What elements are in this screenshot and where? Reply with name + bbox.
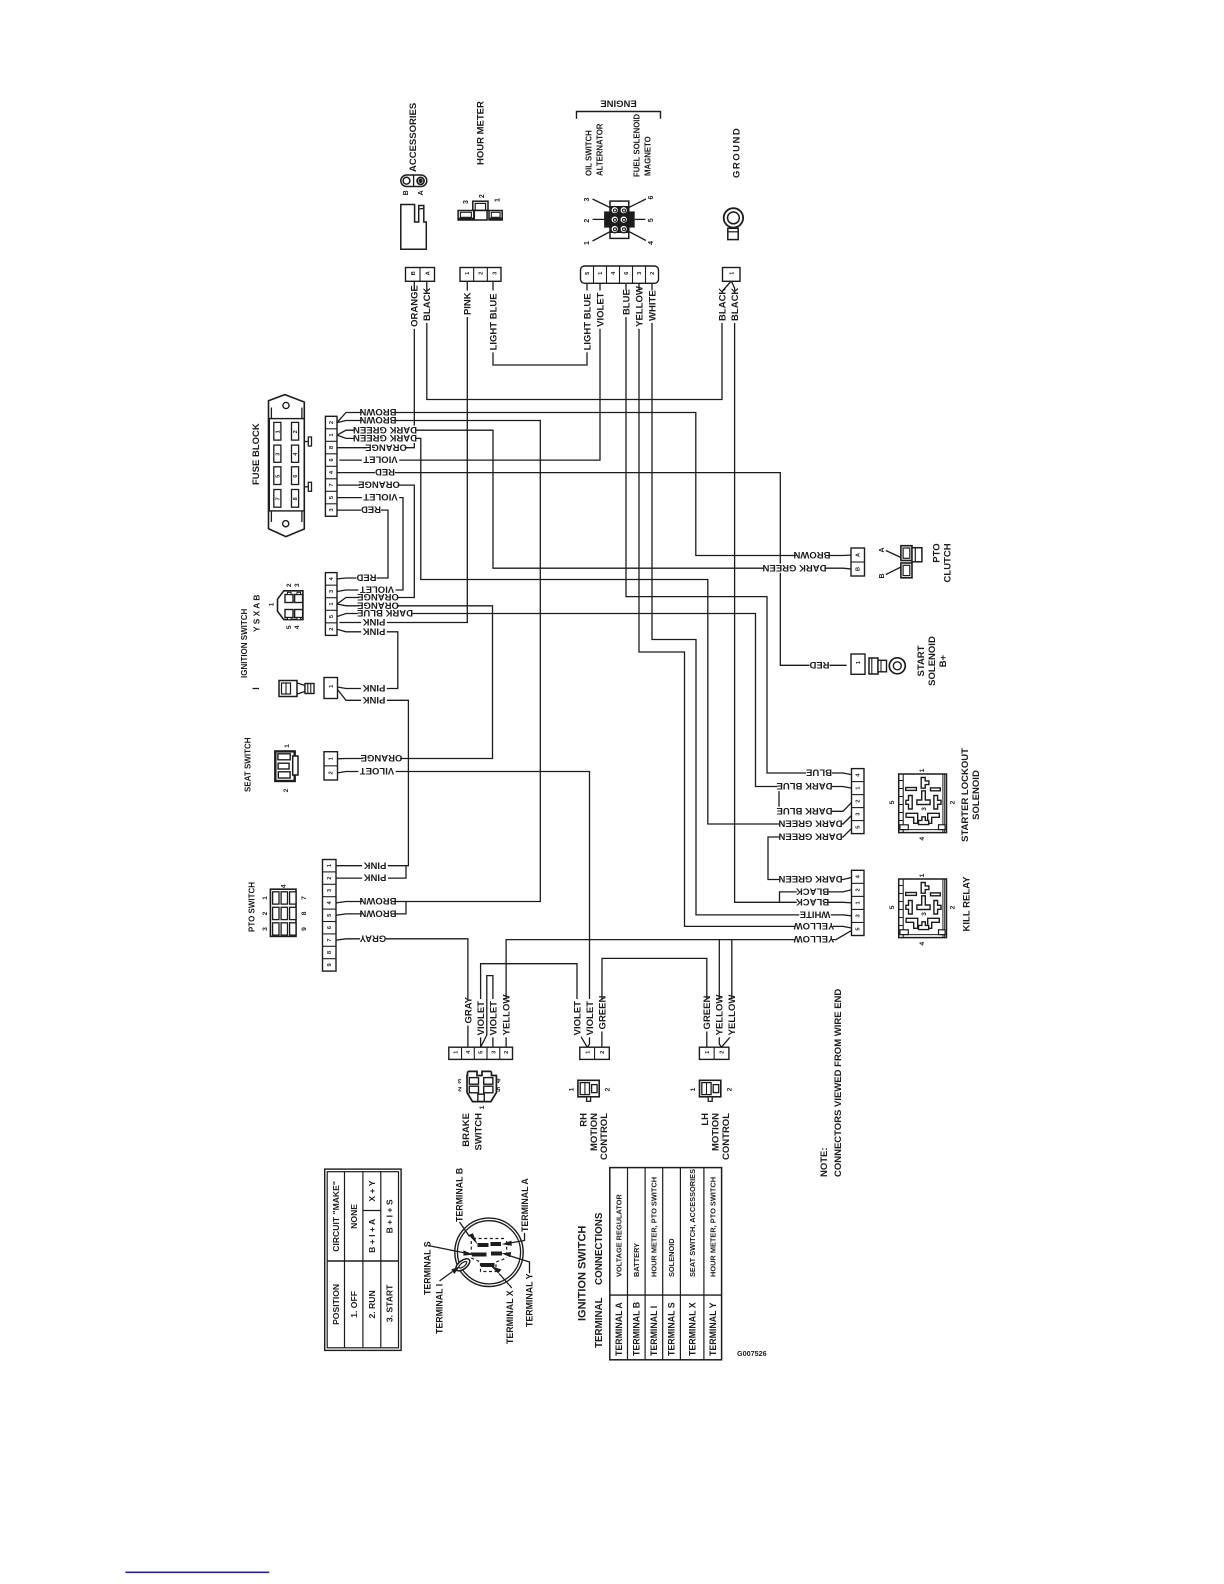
svg-text:SOLENOID: SOLENOID — [971, 770, 982, 820]
svg-text:CONNECTORS VIEWED FROM WIRE EN: CONNECTORS VIEWED FROM WIRE END — [833, 989, 844, 1177]
terminal I leader line and arrow — [440, 1272, 453, 1282]
engine pin leader line 4 — [629, 232, 646, 241]
starter lockout solenoid relay symbol — [899, 774, 947, 833]
svg-text:VIOLET: VIOLET — [572, 1001, 583, 1036]
svg-text:2: 2 — [479, 194, 486, 198]
terminal bar B — [478, 1243, 489, 1247]
PTO switch connector strip — [323, 860, 337, 972]
wire label ORANGE at ignition pin 1a — [359, 593, 396, 602]
wire label RED at fuse pin 3 — [361, 506, 381, 515]
svg-text:SOLENOID: SOLENOID — [927, 636, 938, 686]
svg-text:B+: B+ — [938, 654, 949, 667]
engine pin leader line 6 — [629, 199, 646, 208]
start solenoid ring terminal symbol — [869, 658, 878, 674]
key terminal I connector box — [324, 678, 338, 699]
wire label GRAY at PTO pin 7 — [360, 934, 386, 943]
wire label PINK at key terminal b — [361, 696, 387, 705]
svg-text:ALTERNATOR: ALTERNATOR — [596, 123, 605, 176]
svg-text:BLACK: BLACK — [717, 288, 728, 321]
svg-text:2: 2 — [293, 430, 299, 433]
svg-text:6: 6 — [648, 195, 655, 199]
svg-text:4: 4 — [294, 625, 301, 629]
footer rule — [125, 1571, 269, 1573]
wire label GREEN at RH motion pin 2 — [598, 999, 606, 1031]
wire label RED at fuse pin 4 — [375, 468, 395, 477]
svg-text:YELLOW: YELLOW — [715, 995, 726, 1036]
wire label BROWN at PTO clutch A — [796, 551, 828, 560]
brake switch connector strip — [449, 1047, 513, 1059]
svg-text:2: 2 — [726, 1087, 733, 1091]
wire label YELLOW at kill relay pin 5b — [795, 935, 832, 944]
svg-text:VIOLET: VIOLET — [595, 292, 606, 327]
wire YELLOW: LH motion control pin 2 riser — [719, 940, 721, 1048]
kill relay connector strip — [852, 870, 865, 935]
wire BROWN: PTO switch pin 5 jumper to pin 4 — [336, 902, 406, 915]
svg-text:GRAY: GRAY — [359, 932, 386, 943]
svg-text:2: 2 — [458, 1085, 462, 1092]
wire ORANGE: fuse block pin 7 to ignition switch pin 1 — [337, 485, 414, 604]
svg-text:TERMINAL I: TERMINAL I — [434, 1284, 444, 1334]
svg-text:YELLOW: YELLOW — [502, 995, 513, 1036]
accessories fuse-holder body — [401, 205, 427, 250]
svg-text:B: B — [855, 567, 861, 571]
svg-text:VIOLET: VIOLET — [476, 1001, 487, 1036]
svg-text:CONTROL: CONTROL — [599, 1113, 610, 1160]
wire VIOLET: brake switch pin 5 to RH motion control pin 1 — [481, 964, 588, 1047]
ignition position table — [325, 1169, 401, 1350]
svg-text:1: 1 — [284, 744, 291, 748]
accessories connector symbol — [401, 175, 427, 187]
svg-text:CONTROL: CONTROL — [721, 1113, 732, 1160]
wire label BROWN at fuse pin 2a — [362, 408, 394, 417]
wire PINK: PTO switch pin 2 jumper to pin 1 — [336, 866, 406, 878]
svg-text:1: 1 — [495, 198, 502, 202]
svg-text:2: 2 — [855, 799, 861, 802]
svg-text:3: 3 — [463, 200, 470, 204]
svg-text:1: 1 — [262, 896, 269, 900]
svg-text:BROWN: BROWN — [359, 414, 396, 425]
svg-text:2: 2 — [283, 788, 290, 792]
svg-text:B: B — [879, 573, 886, 578]
svg-text:PTO: PTO — [931, 543, 942, 562]
ignition switch connector strip — [325, 573, 337, 636]
svg-text:RED: RED — [361, 504, 381, 515]
wire RED: fuse block pin 4 to start solenoid B+ — [337, 473, 846, 666]
wire label PINK at PTO pin 2 — [362, 874, 388, 883]
wire label DARK GREEN at fuse pin 1b — [355, 434, 415, 443]
svg-text:ORANGE: ORANGE — [365, 441, 407, 452]
svg-text:7: 7 — [301, 896, 308, 900]
svg-text:TERMINAL X: TERMINAL X — [687, 1302, 697, 1356]
svg-text:2: 2 — [504, 1051, 510, 1054]
svg-text:8: 8 — [301, 911, 308, 915]
wire YELLOW: LH motion control pin 2 second riser — [722, 940, 732, 1048]
svg-text:A: A — [879, 547, 886, 552]
svg-text:RED: RED — [375, 466, 395, 477]
svg-text:4: 4 — [919, 837, 926, 841]
svg-text:1. OFF: 1. OFF — [349, 1291, 359, 1318]
svg-text:A: A — [418, 190, 425, 195]
svg-text:START: START — [916, 645, 927, 676]
wire label VIOLET at brake switch pin 5 — [476, 999, 484, 1037]
svg-text:ENGINE: ENGINE — [600, 98, 636, 109]
svg-text:CONNECTIONS: CONNECTIONS — [594, 1212, 605, 1285]
wire label BLACK at ground 1 — [718, 291, 726, 323]
svg-text:PINK: PINK — [363, 682, 386, 693]
svg-text:2: 2 — [650, 272, 656, 275]
svg-text:7: 7 — [329, 483, 335, 486]
PTO clutch leader line B — [886, 567, 901, 575]
wire label ORANGE at fuse pin 8 — [367, 443, 404, 452]
wire label YELLOW at LH motion pin 2b — [728, 999, 736, 1037]
engine pin leader line 2 — [593, 218, 605, 220]
svg-text:5: 5 — [275, 475, 281, 478]
wire label ORANGE at seat switch — [363, 754, 400, 763]
wire label BLACK at accessories — [423, 291, 431, 323]
svg-text:B: B — [403, 190, 410, 195]
wire label RED at start solenoid — [809, 661, 829, 670]
svg-text:TERMINAL Y: TERMINAL Y — [525, 1273, 535, 1327]
svg-text:FUEL SOLENOID: FUEL SOLENOID — [632, 114, 641, 177]
wire label DARK GREEN at kill relay pin 4 — [781, 875, 841, 884]
wire BLUE: engine pin 6 to starter lockout solenoid pin 4 — [626, 284, 843, 774]
svg-text:5: 5 — [889, 800, 896, 804]
svg-text:2: 2 — [329, 628, 335, 631]
svg-text:1: 1 — [479, 1105, 486, 1109]
svg-text:7: 7 — [327, 938, 333, 941]
svg-text:BRAKE: BRAKE — [461, 1113, 472, 1147]
svg-text:3: 3 — [921, 912, 928, 916]
svg-text:2: 2 — [328, 771, 334, 774]
wire BLACK: kill relay pin 2 jumper to pin 1 — [780, 890, 852, 903]
svg-text:2: 2 — [605, 1087, 612, 1091]
wire label PINK at ignition pin 2a — [361, 618, 387, 627]
svg-text:2: 2 — [329, 421, 335, 424]
svg-text:KILL RELAY: KILL RELAY — [961, 876, 972, 932]
svg-text:2: 2 — [584, 219, 591, 223]
wire label DARK GREEN at starter lockout pin 5 — [781, 832, 841, 841]
svg-text:DARK BLUE: DARK BLUE — [777, 805, 833, 816]
wire DARK GREEN: fuse block pin 1 to PTO clutch pin B — [337, 430, 852, 569]
svg-text:1: 1 — [919, 768, 926, 772]
wire label LIGHT BLUE at engine — [583, 291, 591, 353]
svg-text:BLACK: BLACK — [422, 288, 433, 321]
svg-text:PTO SWITCH: PTO SWITCH — [247, 882, 256, 932]
svg-text:SEAT SWITCH, ACCESSORIES: SEAT SWITCH, ACCESSORIES — [688, 1169, 697, 1277]
terminal B leader line and arrow — [460, 1222, 470, 1237]
wire BROWN: fuse block pin 2 to PTO clutch pin A — [337, 413, 852, 556]
svg-text:NONE: NONE — [349, 1204, 359, 1229]
PTO clutch connector strip — [851, 548, 865, 576]
svg-text:ORANGE: ORANGE — [410, 285, 421, 327]
svg-text:2: 2 — [720, 1051, 726, 1054]
wire PINK: hour meter pin 1 to ignition switch pin 2 — [340, 281, 467, 622]
svg-text:TERMINAL A: TERMINAL A — [520, 1178, 530, 1232]
engine 6-pin connector symbol — [610, 201, 629, 238]
svg-text:3: 3 — [921, 807, 928, 811]
wire YELLOW: engine pin 3 to kill relay pin 5 — [639, 284, 843, 927]
wire label LIGHT BLUE at hour meter — [489, 291, 497, 353]
wire label WHITE at kill relay pin 3 — [799, 910, 831, 919]
terminal bar S — [472, 1253, 487, 1257]
wire ORANGE: accessories pin B to fuse block pin 8 — [337, 281, 414, 447]
svg-text:MAGNETO: MAGNETO — [644, 136, 653, 176]
svg-text:2: 2 — [262, 911, 269, 915]
wire label VIOLET at engine — [596, 291, 604, 329]
wire LIGHT BLUE: hour meter pin 3 to engine pin 5 — [493, 281, 587, 365]
svg-text:BLACK: BLACK — [796, 896, 829, 907]
wire label VIOLET at ignition pin 3 — [358, 585, 395, 594]
terminal S leader line and arrow — [428, 1246, 464, 1253]
wire label PINK at PTO pin 1 — [362, 861, 388, 870]
svg-text:X + Y: X + Y — [367, 1180, 377, 1201]
svg-text:PINK: PINK — [363, 694, 386, 705]
wire label BROWN at fuse pin 2b — [362, 416, 394, 425]
svg-text:NOTE:: NOTE: — [819, 1147, 830, 1177]
kill relay symbol — [899, 879, 947, 938]
wire label YELLOW at LH motion pin 2a — [715, 999, 723, 1037]
wire BROWN: fuse block pin 2 to PTO switch pin 4 — [336, 421, 540, 903]
svg-text:BROWN: BROWN — [359, 908, 396, 919]
svg-text:4: 4 — [280, 884, 287, 888]
fuse block connector strip — [325, 416, 337, 516]
terminal bar A — [491, 1242, 502, 1246]
wire VIOLET: brake switch pin 3 jumper to pin 5 — [481, 976, 493, 1048]
LH motion control connector strip — [699, 1047, 729, 1059]
ground connector strip — [723, 268, 741, 282]
ignition switch dashed contour — [471, 1239, 506, 1272]
wire label YELLOW at kill relay pin 5a — [795, 922, 832, 931]
svg-text:YELLOW: YELLOW — [794, 920, 835, 931]
svg-text:ACCESSORIES: ACCESSORIES — [408, 103, 419, 172]
svg-text:TERMINAL X: TERMINAL X — [505, 1290, 515, 1344]
wire label DARK GREEN at starter lockout pin 3 — [781, 819, 841, 828]
svg-text:OIL SWITCH: OIL SWITCH — [584, 130, 593, 176]
wire label BLACK at kill relay pin 2 — [797, 887, 829, 896]
svg-text:PINK: PINK — [364, 859, 387, 870]
wire label DARK BLUE at starter lockout pin 2 — [777, 807, 831, 816]
wire label BLUE at starter lockout pin 4 — [806, 768, 832, 777]
wire label BROWN at PTO pin 5 — [362, 909, 394, 918]
svg-text:VIOLET: VIOLET — [585, 1001, 596, 1036]
ground ring terminal symbol — [724, 208, 743, 227]
svg-text:GREEN: GREEN — [702, 996, 713, 1030]
ignition switch face circle — [455, 1218, 523, 1286]
PTO clutch symbol — [901, 546, 912, 561]
svg-text:LIGHT BLUE: LIGHT BLUE — [582, 293, 593, 350]
wire label VIOLET at seat switch — [358, 767, 395, 776]
svg-text:3: 3 — [457, 1077, 461, 1084]
svg-text:HOUR METER, PTO SWITCH: HOUR METER, PTO SWITCH — [650, 1177, 659, 1277]
svg-text:9: 9 — [301, 927, 308, 931]
wire label VIOLET at fuse pin 5 — [362, 493, 399, 502]
svg-text:G007526: G007526 — [737, 1349, 767, 1358]
wire BLACK: ground fork diagonal — [722, 281, 731, 292]
svg-text:2: 2 — [600, 1051, 606, 1054]
svg-text:BLUE: BLUE — [806, 767, 832, 778]
svg-text:TERMINAL Y: TERMINAL Y — [708, 1302, 718, 1356]
wire label ORANGE at accessories — [410, 291, 418, 329]
svg-text:BLACK: BLACK — [796, 886, 829, 897]
svg-text:5: 5 — [648, 218, 655, 222]
fuse block side tab upper — [304, 441, 308, 443]
svg-text:B + I + S: B + I + S — [385, 1199, 395, 1233]
svg-text:ORANGE: ORANGE — [358, 479, 400, 490]
wire label WHITE at engine — [648, 291, 656, 323]
wire label ORANGE at fuse pin 7 — [360, 481, 397, 490]
wire PINK: key terminal I to PTO switch pin 1 — [336, 690, 408, 866]
svg-text:B + I + A: B + I + A — [367, 1219, 377, 1253]
wire YELLOW: brake switch pin 2 to kill relay pin 5 — [506, 931, 851, 1048]
PTO clutch leader line A — [886, 551, 901, 558]
ignition switch connections table — [610, 1168, 722, 1360]
seat switch connector strip — [324, 752, 338, 780]
engine pin leader line 3 — [593, 199, 611, 208]
wire label ORANGE at ignition pin 1b — [359, 601, 396, 610]
terminal A leader line and arrow — [512, 1234, 525, 1243]
svg-text:PINK: PINK — [364, 872, 387, 883]
wire BLACK: ground terminal to kill relay pin 1 — [731, 281, 851, 903]
wire label VIOLET at RH motion pin 1b — [585, 999, 593, 1037]
wire VIOLET: fuse block pin 5 to ignition switch pin 3 — [337, 498, 403, 592]
svg-text:VOLTAGE REGULATOR: VOLTAGE REGULATOR — [614, 1194, 623, 1277]
start solenoid connector box — [851, 654, 865, 674]
svg-text:TERMINAL B: TERMINAL B — [454, 1168, 464, 1222]
fuse block side tab lower — [304, 486, 308, 488]
wire PINK: ignition switch pin 2 to key terminal I — [337, 629, 398, 688]
svg-text:DARK GREEN: DARK GREEN — [778, 831, 842, 842]
svg-text:PINK: PINK — [363, 625, 386, 636]
wire GRAY: PTO switch pin 7 to brake switch pin 4 — [336, 939, 468, 1047]
svg-text:1: 1 — [690, 1087, 697, 1091]
svg-text:YELLOW: YELLOW — [794, 933, 835, 944]
terminal bar X — [481, 1263, 495, 1267]
svg-text:I: I — [251, 687, 261, 690]
wire DARK GREEN: fuse block pin 1 to starter lockout solenoid pin 3 — [337, 435, 843, 824]
wire label PINK at ignition pin 2b — [361, 627, 387, 636]
svg-text:2: 2 — [479, 272, 485, 275]
svg-text:CLUTCH: CLUTCH — [943, 543, 954, 582]
svg-text:WHITE: WHITE — [800, 909, 831, 920]
svg-text:8: 8 — [293, 497, 299, 500]
wire WHITE: engine pin 2 to kill relay pin 3 — [652, 284, 843, 915]
svg-text:TERMINAL B: TERMINAL B — [631, 1302, 641, 1356]
wire BLACK: accessories pin A to ground terminal — [427, 281, 732, 400]
engine pin leader line 1 — [593, 232, 611, 242]
PTO switch symbol — [270, 889, 296, 936]
wire label PINK at hour meter — [463, 291, 471, 318]
svg-text:VILOET: VILOET — [360, 765, 395, 776]
svg-text:RED: RED — [809, 659, 829, 670]
svg-text:BROWN: BROWN — [359, 895, 396, 906]
svg-text:YELLOW: YELLOW — [634, 286, 645, 327]
key spade terminal symbol — [279, 681, 297, 697]
wire label DARK BLUE at starter lockout pin 1 — [777, 782, 831, 791]
svg-text:IGNITION SWITCH: IGNITION SWITCH — [577, 1226, 589, 1321]
svg-text:2: 2 — [949, 905, 956, 909]
svg-text:2: 2 — [286, 583, 293, 587]
wire VIOLET: engine pin 1 to fuse block pin 6 — [340, 284, 600, 461]
svg-text:5: 5 — [889, 905, 896, 909]
svg-text:IGNITION SWITCH: IGNITION SWITCH — [240, 608, 249, 678]
wire label YELLOW at engine — [635, 291, 643, 329]
wire label RED at ignition pin 4 — [356, 573, 376, 582]
svg-text:FUSE BLOCK: FUSE BLOCK — [251, 423, 262, 485]
wire label VIOLET at brake switch pin 3 — [489, 999, 497, 1037]
svg-text:CIRCUIT "MAKE": CIRCUIT "MAKE" — [331, 1181, 341, 1252]
svg-text:1: 1 — [584, 241, 591, 245]
fuse block symbol — [269, 395, 305, 537]
wire DARK BLUE: ignition switch pin 5 to starter lockout solenoid pin 1 — [337, 614, 852, 789]
seat switch symbol — [275, 751, 294, 781]
svg-text:VIOLET: VIOLET — [488, 1001, 499, 1036]
svg-text:GRAY: GRAY — [463, 996, 474, 1023]
wire DARK GREEN: starter lockout solenoid pin 5 to kill relay pin 4 — [768, 829, 852, 880]
wire label GRAY at brake switch — [464, 999, 472, 1026]
svg-text:WHITE: WHITE — [647, 290, 658, 321]
svg-text:4: 4 — [497, 1076, 501, 1083]
engine bracket — [577, 112, 661, 119]
wire label DARK BLUE at ignition pin 5 — [358, 609, 412, 618]
svg-text:RED: RED — [356, 572, 376, 583]
wire label BLUE at engine — [622, 291, 630, 318]
brake switch symbol — [467, 1071, 496, 1101]
ignition switch connector symbol — [278, 591, 303, 620]
svg-text:3: 3 — [262, 927, 269, 931]
wire GREEN: RH motion control pin 2 to LH motion control pin 1 — [602, 958, 707, 1047]
svg-text:SOLENOID: SOLENOID — [667, 1238, 676, 1277]
terminal I key oval — [454, 1256, 472, 1273]
svg-text:3: 3 — [275, 453, 281, 456]
svg-text:4: 4 — [648, 241, 655, 245]
wire label DARK GREEN at fuse pin 1a — [355, 426, 415, 435]
hour meter symbol — [473, 201, 488, 210]
svg-text:3. START: 3. START — [385, 1284, 395, 1322]
wire RED: fuse block pin 3 to ignition switch pin 4 — [337, 510, 388, 579]
hour meter connector strip — [460, 268, 501, 282]
terminal X leader line and arrow — [499, 1274, 512, 1289]
wire DARK BLUE: starter lockout solenoid pin 2 jumper to pin 1 — [779, 787, 852, 812]
svg-text:YELLOW: YELLOW — [727, 995, 738, 1036]
svg-text:1: 1 — [275, 430, 281, 433]
svg-text:1: 1 — [568, 1087, 575, 1091]
svg-text:1: 1 — [919, 873, 926, 877]
svg-text:HOUR METER, PTO SWITCH: HOUR METER, PTO SWITCH — [708, 1177, 717, 1277]
svg-text:SWITCH: SWITCH — [474, 1113, 485, 1151]
svg-text:STARTER LOCKOUT: STARTER LOCKOUT — [960, 748, 971, 842]
RH motion control connector strip — [580, 1047, 610, 1059]
svg-text:Y S X A B: Y S X A B — [252, 595, 262, 632]
svg-text:BATTERY: BATTERY — [632, 1243, 641, 1277]
engine connector strip — [581, 266, 659, 283]
svg-text:2. RUN: 2. RUN — [367, 1290, 377, 1318]
svg-text:PINK: PINK — [463, 292, 474, 315]
svg-text:B: B — [411, 271, 417, 275]
RH motion control symbol — [578, 1080, 599, 1097]
svg-text:DARK GREEN: DARK GREEN — [778, 818, 842, 829]
wire label VIOLET at RH motion pin 1a — [573, 999, 581, 1037]
svg-text:BLACK: BLACK — [730, 288, 741, 321]
engine pin leader line 5 — [635, 218, 646, 220]
wire ORANGE: ignition switch pin 1 to seat switch pin 1 — [337, 604, 493, 759]
wire VIOLET: seat switch pin 2 to RH motion control pin 1 — [338, 772, 590, 1048]
accessories connector strip — [406, 268, 435, 282]
svg-text:TERMINAL S: TERMINAL S — [423, 1241, 433, 1295]
wire label PINK at key terminal a — [361, 684, 387, 693]
svg-text:3: 3 — [584, 197, 591, 201]
svg-text:POSITION: POSITION — [331, 1284, 341, 1325]
wire label YELLOW at brake switch — [502, 999, 510, 1037]
